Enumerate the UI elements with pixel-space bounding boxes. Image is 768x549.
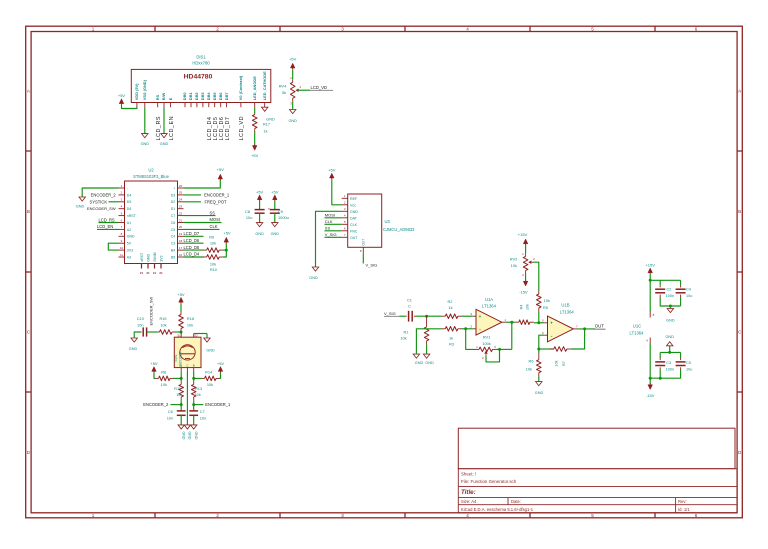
svg-text:100n: 100n: [666, 294, 674, 298]
svg-text:A: A: [180, 363, 182, 367]
wire +5V to U3 Vcc: [332, 179, 342, 205]
svg-text:REF: REF: [350, 197, 358, 201]
label LCD_D5 at U2: [184, 249, 205, 251]
svg-text:CLK: CLK: [350, 223, 358, 227]
svg-text:STM8S103F3_Blue: STM8S103F3_Blue: [133, 174, 169, 179]
svg-text:U1A: U1A: [485, 297, 493, 302]
svg-text:GND: GND: [535, 391, 544, 395]
svg-text:10u: 10u: [246, 215, 253, 220]
power -15V under U1C: [648, 385, 653, 390]
svg-text:D5: D5: [127, 200, 132, 204]
ground under LCD pin R/W: [161, 134, 167, 138]
svg-text:21: 21: [179, 218, 183, 222]
svg-text:nRST: nRST: [140, 252, 144, 262]
U2 right pins: [171, 184, 184, 260]
ground under encoder common: [184, 425, 190, 429]
RV2 wiper: [528, 261, 531, 264]
svg-text:Vcc: Vcc: [350, 203, 356, 207]
wire LCD VSS to ground: [144, 107, 146, 133]
svg-text:ENCODER_SW: ENCODER_SW: [87, 206, 116, 211]
svg-text:D1: D1: [171, 207, 176, 211]
svg-text:HDxx780: HDxx780: [192, 61, 210, 66]
wire encoder S2 to ground: [194, 333, 207, 335]
svg-text:GND: GND: [266, 117, 275, 121]
wire RV1 wiper loop to output: [486, 349, 500, 362]
svg-text:10u: 10u: [686, 368, 692, 372]
svg-text:GND: GND: [194, 432, 198, 440]
wire C5 bottom: [660, 370, 680, 379]
svg-text:Size: A4: Size: A4: [461, 499, 477, 504]
global label ENCODER_2 at encoder: [171, 404, 182, 406]
svg-text:U1B: U1B: [561, 303, 569, 308]
resistor R9 pullup: [204, 249, 207, 251]
global label ENCODER_1 at encoder: [194, 404, 204, 406]
svg-text:20: 20: [179, 225, 183, 229]
ground under C9: [272, 223, 278, 227]
svg-text:SWIM: SWIM: [153, 252, 157, 262]
MCU module U2 STM8S103F3_Blue body: [125, 181, 178, 264]
svg-text:RV4: RV4: [279, 84, 287, 89]
svg-text:10k: 10k: [400, 336, 406, 341]
svg-text:17: 17: [179, 246, 183, 250]
U3 left pins: [342, 194, 359, 240]
svg-text:B: B: [738, 209, 741, 214]
svg-text:LT1364: LT1364: [482, 304, 497, 309]
svg-text:File: Function Generator.sch: File: Function Generator.sch: [461, 479, 517, 484]
wire U3 GND to ground: [316, 211, 342, 267]
wire C3 bottom to -15V rail: [650, 370, 660, 379]
title block: [458, 469, 737, 513]
svg-text:A2: A2: [127, 228, 131, 232]
svg-text:C1: C1: [407, 298, 412, 303]
svg-text:V_SIG: V_SIG: [384, 311, 396, 316]
svg-text:10k: 10k: [187, 323, 193, 328]
svg-text:21: 21: [159, 271, 163, 275]
svg-text:26: 26: [179, 184, 183, 188]
svg-text:LCD_D4: LCD_D4: [184, 252, 200, 257]
wire R4 to U1B pin5 node: [534, 322, 545, 324]
wire C4 bottom to ground: [680, 297, 682, 306]
svg-text:5: 5: [591, 513, 594, 518]
resistor R3: [442, 328, 446, 330]
ground under C2 C4: [667, 309, 673, 313]
svg-text:+5V: +5V: [271, 189, 279, 194]
svg-text:10n: 10n: [167, 415, 174, 420]
title block comment box: [458, 428, 735, 469]
svg-text:D4: D4: [127, 193, 132, 197]
svg-text:1: 1: [92, 27, 95, 32]
svg-text:+15V: +15V: [518, 232, 528, 237]
label MOSI at U2: [184, 222, 222, 224]
svg-text:DB5: DB5: [212, 92, 217, 101]
svg-text:1000u: 1000u: [278, 215, 289, 220]
svg-text:2: 2: [216, 27, 219, 32]
resistor R16: [180, 311, 182, 315]
svg-text:3V3: 3V3: [159, 256, 163, 262]
ground under encoder left: [178, 425, 184, 429]
svg-text:V0 (Contrast): V0 (Contrast): [238, 75, 243, 100]
wire R5 to U1B pin5 node: [538, 312, 540, 323]
svg-text:C4: C4: [686, 287, 691, 291]
svg-text:C5: C5: [171, 228, 176, 232]
ground at C10: [131, 338, 137, 342]
ground under encoder right: [191, 425, 197, 429]
svg-text:21: 21: [153, 271, 157, 275]
svg-text:+: +: [173, 186, 175, 190]
svg-text:D6: D6: [127, 207, 132, 211]
svg-text:10: 10: [120, 246, 124, 250]
svg-text:+5V: +5V: [251, 153, 259, 158]
svg-text:Date:: Date:: [511, 499, 521, 504]
svg-text:SW1: SW1: [174, 354, 178, 361]
svg-text:VDD (5V): VDD (5V): [134, 83, 139, 100]
wire U2 5V to 3V3 loop: [108, 243, 118, 250]
svg-text:10k: 10k: [544, 298, 550, 303]
encoder bottom pins A C B: [180, 368, 182, 372]
svg-text:GND: GND: [141, 142, 150, 146]
svg-text:R10: R10: [210, 267, 218, 272]
RV4 body: [292, 79, 294, 82]
DDS module U3 CJMCU_AD9833 body: [348, 194, 382, 247]
svg-text:1k: 1k: [449, 336, 453, 341]
U2 bottom pins SWIM header: [140, 252, 164, 275]
resistor R10 pullup: [204, 256, 207, 258]
resistor R5: [538, 291, 540, 295]
power +5V below R17: [252, 146, 257, 151]
capacitor C10 10n: [142, 327, 144, 336]
svg-text:HD44780: HD44780: [184, 74, 213, 81]
label CLK at U3: [325, 223, 342, 225]
svg-text:MOSI: MOSI: [210, 217, 220, 222]
wire RV4 wiper to LCD_VD label: [298, 89, 311, 91]
resistor R8: [156, 377, 159, 379]
wire U1A feedback down: [466, 329, 476, 350]
svg-text:GND: GND: [129, 347, 138, 351]
capacitor C4 10u: [680, 280, 682, 285]
wire R11 to ENCODER_2 node: [180, 400, 182, 411]
svg-text:10n: 10n: [137, 323, 144, 328]
wire +5V to R16: [180, 303, 182, 311]
capacitor C9 1000u polarized: [270, 209, 280, 211]
svg-text:RV1: RV1: [483, 335, 491, 340]
svg-text:R15: R15: [159, 316, 166, 321]
svg-text:+5V: +5V: [223, 231, 231, 236]
svg-text:VSS (GND): VSS (GND): [142, 79, 147, 100]
svg-text:10k: 10k: [555, 360, 559, 366]
wire +5V to R8: [154, 373, 156, 379]
svg-text:23: 23: [179, 205, 183, 209]
wire encoder common C to ground: [186, 372, 188, 425]
wire ground to C10: [134, 332, 141, 338]
svg-text:LED_CATHODE: LED_CATHODE: [262, 71, 267, 100]
wire C2 bottom: [660, 297, 680, 306]
svg-text:D3: D3: [171, 193, 176, 197]
wire R8 to encoder A: [173, 377, 181, 379]
capacitor C8 10u: [255, 209, 265, 211]
wire C9 to ground: [274, 213, 276, 222]
resistor R14: [216, 377, 219, 379]
svg-text:+: +: [479, 314, 482, 319]
svg-text:R3: R3: [449, 342, 454, 347]
svg-text:DB7: DB7: [224, 92, 229, 100]
wire R14 to encoder B: [194, 377, 202, 379]
svg-text:LT1364: LT1364: [630, 330, 645, 335]
svg-text:FNC: FNC: [350, 229, 358, 233]
svg-text:R6: R6: [529, 359, 534, 364]
svg-text:2: 2: [216, 513, 219, 518]
svg-text:C7: C7: [171, 214, 176, 218]
wire R13 to ENCODER_1 node: [193, 400, 195, 411]
wire U1B pin6 to feedback node: [539, 335, 545, 352]
svg-text:5: 5: [591, 27, 594, 32]
svg-text:LCD_RS: LCD_RS: [99, 217, 115, 222]
wire +5V to R14: [219, 373, 221, 379]
resistor R1: [426, 316, 428, 327]
svg-text:10k: 10k: [160, 323, 166, 328]
U2 left pins: [119, 184, 137, 260]
svg-text:LED_ANODE: LED_ANODE: [252, 76, 257, 100]
svg-text:ENCODER_1: ENCODER_1: [204, 192, 230, 197]
svg-text:25: 25: [179, 191, 183, 195]
wire +5V to C8: [259, 201, 261, 210]
svg-text:C7: C7: [200, 409, 205, 414]
svg-text:18: 18: [179, 239, 183, 243]
capacitor C3 100n: [659, 352, 661, 358]
svg-text:R13: R13: [195, 386, 202, 391]
wire U1B output to OUT: [577, 328, 595, 330]
svg-text:10k: 10k: [525, 304, 529, 310]
potentiometer RV1 100k: [476, 348, 480, 350]
svg-text:LCD_VD: LCD_VD: [239, 116, 245, 141]
svg-text:10k: 10k: [161, 382, 167, 387]
wire U2 pin26 to +5V: [184, 180, 221, 188]
svg-text:3: 3: [341, 27, 344, 32]
svg-text:DB3: DB3: [200, 92, 205, 101]
RV4 wiper pin 2: [295, 89, 298, 92]
svg-text:22: 22: [179, 211, 183, 215]
svg-text:GND: GND: [271, 232, 280, 236]
wire R15 to encoder switch node: [175, 331, 181, 333]
svg-text:+5V: +5V: [217, 361, 225, 366]
label LCD_D4 at U2: [184, 256, 205, 258]
svg-text:KiCad E.D.A. eeschema 5.1.6+d: KiCad E.D.A. eeschema 5.1.6+dfsg1-1: [461, 507, 534, 512]
RV1 wiper: [484, 351, 487, 354]
label SS at U3: [325, 230, 342, 232]
op-amp U1C power pins: [649, 312, 651, 318]
svg-text:-: -: [479, 327, 481, 333]
svg-text:+5V: +5V: [256, 189, 264, 194]
svg-text:LCD_EN: LCD_EN: [169, 116, 175, 141]
svg-text:LCD_RS: LCD_RS: [156, 116, 162, 141]
svg-text:U1C: U1C: [633, 323, 641, 328]
resistor R4: [515, 321, 519, 323]
svg-text:Sheet: /: Sheet: /: [461, 472, 477, 477]
encoder SW1 body: [174, 337, 201, 367]
svg-text:4: 4: [466, 27, 469, 32]
svg-text:DAT: DAT: [350, 216, 358, 220]
svg-text:24: 24: [179, 198, 183, 202]
svg-text:GND: GND: [255, 232, 264, 236]
wire C10 to R15: [147, 331, 157, 333]
wire +5V to LCD pin1: [122, 105, 137, 109]
wire RV1 to output node: [497, 348, 512, 350]
svg-text:DB6: DB6: [218, 92, 223, 101]
svg-text:C10: C10: [137, 316, 145, 321]
potentiometer RV4 5k contrast: [290, 63, 295, 68]
label LCD_D6 at U2: [184, 242, 204, 244]
svg-text:D2: D2: [171, 200, 176, 204]
svg-text:CLK: CLK: [325, 219, 333, 224]
wire R2 to U1A pin3: [462, 315, 473, 317]
wire RV2 wiper to R5: [533, 262, 539, 290]
wire U1A output: [506, 321, 515, 323]
ground at encoder S2: [204, 338, 210, 342]
svg-text:R2: R2: [448, 299, 453, 304]
svg-text:B5: B5: [171, 255, 175, 259]
ground left of R3: [413, 354, 419, 358]
svg-text:C5: C5: [686, 361, 691, 365]
svg-text:GND: GND: [425, 361, 434, 365]
svg-text:+5V: +5V: [150, 361, 158, 366]
resistor R2: [442, 315, 446, 317]
svg-text:-: -: [551, 334, 553, 340]
svg-text:10u: 10u: [686, 294, 692, 298]
svg-text:16: 16: [179, 253, 183, 257]
resistor R6: [538, 353, 540, 360]
wire +15V to RV2: [525, 245, 527, 253]
svg-text:C8: C8: [245, 209, 250, 214]
wire C8 to ground: [259, 213, 261, 222]
wire encoder A down: [180, 372, 182, 381]
svg-text:10n: 10n: [200, 415, 207, 420]
svg-text:11: 11: [120, 253, 123, 257]
svg-text:10k: 10k: [195, 392, 201, 397]
ground at U2 pin1: [79, 197, 85, 201]
svg-text:+5V: +5V: [177, 292, 185, 297]
svg-text:S2: S2: [194, 334, 198, 338]
svg-text:U2: U2: [148, 168, 154, 173]
svg-text:1: 1: [92, 513, 95, 518]
wire LED anode to R17: [254, 107, 256, 113]
svg-text:DB0: DB0: [182, 92, 187, 100]
svg-text:5V: 5V: [127, 242, 132, 246]
wire U1C pin4 to -15V: [649, 344, 651, 385]
wire to C2 C4 top: [650, 279, 680, 281]
wire U3 bottom pin to V_SIG label: [362, 253, 364, 263]
svg-text:GND: GND: [350, 210, 358, 214]
svg-text:10k: 10k: [210, 262, 216, 267]
wire R1 to ground: [426, 344, 428, 354]
svg-text:B: B: [193, 363, 195, 367]
svg-text:R1: R1: [404, 329, 409, 334]
global label FREQ_POT at U2: [184, 201, 202, 203]
label CLK at U2: [184, 228, 220, 230]
U1B pin stubs: [544, 322, 547, 324]
power -15V under RV2: [523, 281, 528, 286]
wire R9 to +5V node: [223, 249, 227, 251]
svg-text:R8: R8: [161, 370, 166, 375]
svg-text:+: +: [550, 321, 553, 326]
svg-text:C6: C6: [168, 409, 173, 414]
svg-text:GND: GND: [206, 349, 215, 353]
capacitor C1: [405, 315, 407, 317]
svg-text:GND: GND: [666, 319, 675, 323]
svg-text:ENCODER_SW: ENCODER_SW: [148, 297, 153, 326]
svg-text:C: C: [408, 304, 411, 309]
svg-text:LCD_D7: LCD_D7: [184, 231, 200, 236]
svg-text:LCD_D7: LCD_D7: [225, 117, 231, 141]
U3 bottom pin OUT: [362, 247, 364, 253]
svg-text:E: E: [168, 97, 173, 100]
wire V_SIG to C1: [400, 315, 406, 317]
potentiometer RV2 10k: [525, 253, 527, 256]
svg-text:Rev:: Rev:: [678, 499, 687, 504]
svg-text:GND: GND: [415, 361, 424, 365]
resistor R13: [193, 381, 195, 384]
svg-text:C2: C2: [666, 287, 671, 291]
svg-text:6: 6: [695, 513, 698, 518]
svg-text:RS: RS: [155, 94, 160, 100]
svg-text:10k: 10k: [526, 366, 532, 371]
svg-text:FREQ_POT: FREQ_POT: [204, 199, 227, 204]
label SS at U2: [184, 215, 216, 217]
svg-text:LT1364: LT1364: [560, 309, 575, 314]
svg-text:U3: U3: [385, 219, 391, 224]
wire R3 to U1A pin2 node: [462, 328, 473, 330]
svg-text:nRST: nRST: [127, 214, 137, 218]
wire encoder B down: [193, 372, 195, 381]
wire +15V to U1C pin8: [649, 274, 651, 312]
svg-text:GND: GND: [76, 204, 85, 208]
svg-text:B: B: [27, 209, 30, 214]
svg-text:GND: GND: [665, 335, 674, 339]
wire C1 to input node: [416, 315, 442, 317]
wire LCD R/W to ground: [163, 107, 165, 133]
svg-text:GND: GND: [181, 432, 185, 440]
svg-text:DB1: DB1: [188, 92, 193, 101]
resistor R15: [157, 331, 160, 333]
svg-text:3: 3: [341, 513, 344, 518]
svg-text:19: 19: [179, 232, 183, 236]
svg-text:21: 21: [140, 271, 144, 275]
ground under C8: [256, 223, 262, 227]
svg-text:LCD_D5: LCD_D5: [184, 245, 200, 250]
wire R7 to output node: [571, 329, 585, 349]
svg-text:GND: GND: [288, 119, 297, 123]
power +5V at U2 pin26: [218, 174, 223, 179]
svg-text:-15V: -15V: [646, 393, 655, 398]
svg-text:ENCODER_2: ENCODER_2: [143, 402, 169, 407]
svg-text:3V3: 3V3: [127, 249, 133, 253]
svg-text:100n: 100n: [666, 368, 674, 372]
wire U2 pin1 to ground: [82, 188, 118, 197]
DIS1 pin stubs and pin names: [134, 71, 267, 107]
svg-text:LCD_EN: LCD_EN: [97, 224, 113, 229]
svg-text:1k: 1k: [448, 305, 452, 310]
svg-text:10k: 10k: [207, 382, 213, 387]
svg-text:MOSI: MOSI: [325, 213, 335, 218]
wire C6 to ground: [180, 415, 182, 425]
label LCD_D7 at U2: [184, 235, 204, 237]
svg-text:ENCODER_1: ENCODER_1: [205, 402, 231, 407]
svg-text:R5: R5: [543, 305, 548, 310]
wire +5V to C9: [274, 201, 276, 210]
svg-text:OUT: OUT: [350, 236, 358, 240]
svg-text:SYSTICK: SYSTICK: [90, 199, 108, 204]
svg-text:C4: C4: [171, 235, 176, 239]
svg-text:+5V: +5V: [118, 93, 126, 98]
resistor R11: [180, 381, 182, 384]
